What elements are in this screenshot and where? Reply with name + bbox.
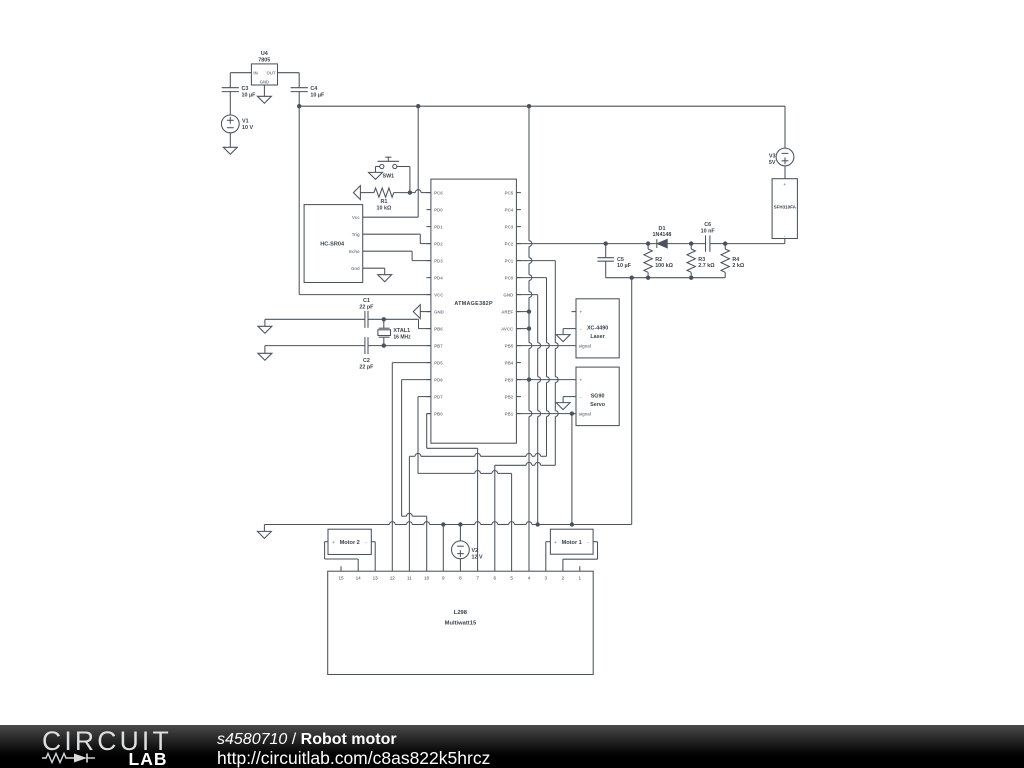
schematic url	[217, 748, 490, 768]
wire PD5 to L298 pin 12	[392, 363, 431, 572]
svg-text:11: 11	[407, 576, 412, 581]
ground under HC-SR04	[378, 275, 392, 282]
svg-text:+: +	[580, 378, 583, 383]
svg-text:PC4: PC4	[505, 207, 514, 212]
svg-text:2 kΩ: 2 kΩ	[732, 263, 744, 269]
wire SW1 right to R1 junction	[397, 167, 410, 193]
svg-text:LAB: LAB	[129, 749, 168, 768]
crystal XTAL1 16 MHz	[378, 319, 411, 345]
wire Motor 1 right to L298 pin 2	[563, 542, 598, 572]
wire network down to ground rail	[631, 278, 633, 525]
svg-text:7: 7	[476, 576, 479, 581]
node PB3 junction on 5V bus	[527, 377, 531, 381]
wire SW1 left to ground	[376, 167, 380, 173]
capacitor C3 10 uF	[222, 86, 256, 98]
svg-text:PD7: PD7	[434, 394, 443, 399]
svg-text:SW1: SW1	[383, 174, 395, 180]
svg-text:PC3: PC3	[505, 224, 514, 229]
diode D1 1N4148	[653, 226, 672, 248]
svg-text:-: -	[784, 234, 786, 239]
wire PB5 to laser signal	[516, 345, 576, 347]
laser module XC-4490	[572, 299, 620, 358]
svg-text:+: +	[783, 182, 786, 187]
svg-text:Echo: Echo	[349, 249, 360, 254]
svg-text:1: 1	[579, 576, 582, 581]
wire PB0 to L298 pin 7	[427, 414, 478, 572]
svg-text:R3: R3	[698, 257, 705, 263]
svg-text:ATMAGE382P: ATMAGE382P	[454, 301, 493, 307]
ground under V1	[223, 147, 237, 154]
node GND vertical at ground rail	[536, 522, 540, 526]
svg-text:PC5: PC5	[505, 190, 514, 195]
wire chip GND right	[516, 294, 537, 296]
svg-text:PC0: PC0	[505, 275, 514, 280]
svg-text:C6: C6	[704, 222, 711, 228]
svg-text:PC2: PC2	[505, 241, 514, 246]
motor M2 Motor 2	[328, 529, 371, 554]
svg-text:AVCC: AVCC	[501, 326, 514, 331]
svg-text:PD0: PD0	[434, 207, 443, 212]
svg-text:PB3: PB3	[505, 377, 514, 382]
svg-text:PB5: PB5	[505, 343, 514, 348]
capacitor C1 22 pF	[359, 298, 374, 328]
svg-text:1N4148: 1N4148	[653, 232, 672, 238]
wire V2 to L298 pin 8	[459, 559, 461, 572]
node R3 top	[689, 241, 693, 245]
servo module SG90	[576, 367, 619, 426]
node AVCC junction	[527, 326, 531, 330]
wire servo minus to ground	[563, 397, 576, 403]
ground left of C1	[258, 326, 272, 333]
wire Motor 2 left to L298 pin 14	[325, 542, 359, 572]
resistor R2 100 kOhm	[644, 244, 674, 278]
node rail to V2	[458, 522, 462, 526]
wire 5V bus vertical	[529, 106, 532, 571]
svg-text:PD3: PD3	[434, 258, 443, 263]
node R2 bottom	[646, 276, 650, 280]
voltage source V3 5V	[769, 148, 794, 166]
svg-text:2.7 kΩ: 2.7 kΩ	[698, 263, 715, 269]
svg-text:+: +	[580, 310, 583, 315]
node network to ground rail	[630, 276, 634, 280]
svg-text:10 µF: 10 µF	[242, 93, 257, 99]
pushbutton SW1	[378, 157, 400, 179]
wire rail down to V3	[784, 106, 786, 148]
wire network bottom	[606, 277, 726, 279]
ground at chip GND pin	[413, 305, 431, 319]
node rail to HC-SR04 branch	[416, 104, 420, 108]
svg-text:10 kΩ: 10 kΩ	[376, 205, 391, 211]
svg-text:16 MHz: 16 MHz	[393, 334, 411, 340]
svg-text:PD4: PD4	[434, 275, 443, 280]
svg-text:GND: GND	[503, 292, 513, 297]
svg-text:PB4: PB4	[505, 360, 514, 365]
svg-text:5V: 5V	[769, 160, 776, 166]
svg-text:10: 10	[424, 576, 430, 581]
svg-text:XTAL1: XTAL1	[393, 328, 410, 334]
voltage regulator U4 7805	[251, 51, 277, 85]
wire HC-SR04 Echo to PD3	[363, 251, 431, 260]
resistor R1 10 kOhm	[360, 188, 431, 211]
svg-text:3: 3	[545, 576, 548, 581]
capacitor C2 22 pF	[359, 337, 374, 370]
svg-text:Motor 1: Motor 1	[562, 540, 582, 546]
wire Motor 2 right to L298 pin 13	[371, 542, 375, 572]
svg-text:VCC: VCC	[434, 292, 444, 297]
svg-text:signal: signal	[579, 411, 591, 416]
node R3 bottom	[689, 276, 693, 280]
svg-text:R2: R2	[655, 257, 662, 263]
svg-text:C2: C2	[363, 358, 370, 364]
wire PB7 to crystal net	[265, 346, 431, 354]
CircuitLab logo	[0, 725, 200, 768]
wire PC2 stub to network	[0, 0, 1, 1]
svg-text:PD1: PD1	[434, 224, 443, 229]
wire rail to L298 pin 9	[442, 525, 444, 572]
wire rail to V2	[459, 525, 461, 542]
svg-text:SG90: SG90	[591, 394, 605, 400]
svg-text:PC6: PC6	[434, 190, 443, 195]
svg-text:XC-4490: XC-4490	[587, 326, 608, 332]
resistor R3 2.7 kOhm	[687, 244, 715, 278]
svg-text:V1: V1	[242, 119, 249, 125]
wire PB1 to servo signal	[516, 413, 576, 415]
wire PC0 vertical	[547, 278, 550, 457]
svg-text:Gnd: Gnd	[351, 266, 360, 271]
svg-text:-: -	[580, 395, 582, 400]
svg-text:PB7: PB7	[434, 343, 443, 348]
wire PC0 to bus	[516, 277, 546, 279]
svg-text:6: 6	[494, 576, 497, 581]
node rail to bus branch	[527, 104, 531, 108]
svg-text:C3: C3	[242, 86, 249, 92]
svg-text:R4: R4	[732, 257, 739, 263]
svg-text:8: 8	[459, 576, 462, 581]
svg-text:Laser: Laser	[590, 334, 605, 340]
svg-text:C4: C4	[310, 86, 317, 92]
node C5 top	[604, 241, 608, 245]
svg-text:OUT: OUT	[267, 71, 276, 76]
svg-text:GND: GND	[434, 309, 444, 314]
svg-text:Motor 2: Motor 2	[340, 540, 360, 546]
svg-text:PB6: PB6	[434, 326, 443, 331]
svg-text:SFH310FA: SFH310FA	[774, 204, 797, 209]
wire U4 GND pin	[263, 85, 265, 96]
svg-text:C1: C1	[363, 298, 370, 304]
svg-text:U4: U4	[261, 51, 268, 57]
wire U4 IN to C3	[230, 73, 251, 88]
svg-text:PB2: PB2	[505, 394, 514, 399]
phototransistor SFH310FA	[772, 179, 797, 239]
svg-text:PB1: PB1	[505, 411, 514, 416]
svg-text:AREF: AREF	[501, 309, 513, 314]
svg-text:+: +	[332, 540, 335, 545]
wire PC0 net to L298 pin 11	[409, 453, 546, 571]
svg-text:10 V: 10 V	[242, 125, 253, 131]
svg-text:10 nF: 10 nF	[701, 229, 716, 235]
schematic title	[217, 731, 397, 749]
wire C4 down to VCC rail junction	[298, 92, 300, 295]
footer bar	[0, 725, 1024, 768]
svg-text:2: 2	[562, 576, 565, 581]
svg-text:-: -	[580, 327, 582, 332]
wire servo signal branch to ground rail	[571, 414, 573, 525]
svg-text:L298: L298	[454, 610, 468, 616]
wire rail left end to ground	[263, 525, 265, 532]
node SW1-R1 junction	[408, 190, 412, 194]
voltage source V1 10 V	[221, 115, 253, 133]
svg-text:100 kΩ: 100 kΩ	[655, 263, 673, 269]
node crystal top	[382, 317, 386, 321]
svg-text:PB0: PB0	[434, 411, 443, 416]
svg-text:13: 13	[373, 576, 379, 581]
ground under SW1	[369, 172, 383, 179]
resistor R4 2 kOhm	[721, 244, 745, 278]
svg-text:12 V: 12 V	[472, 554, 483, 560]
svg-text:9: 9	[442, 576, 445, 581]
svg-text:12: 12	[390, 576, 396, 581]
wire PB6 to crystal net	[265, 319, 431, 328]
svg-text:15: 15	[338, 576, 344, 581]
svg-text:IN: IN	[253, 71, 257, 76]
svg-text:14: 14	[356, 576, 362, 581]
svg-text:PD6: PD6	[434, 377, 443, 382]
wire 5V branch to HC-SR04 Vcc	[363, 106, 419, 217]
wire U4 OUT to C4	[278, 73, 300, 88]
node servo signal junction	[570, 411, 574, 415]
wire V1 to ground	[229, 133, 231, 148]
svg-text:Multiwatt15: Multiwatt15	[445, 620, 477, 626]
svg-text:22 pF: 22 pF	[359, 304, 374, 310]
svg-text:Vcc: Vcc	[352, 215, 360, 220]
ground under U4	[257, 96, 271, 103]
wire PC1 net to L298 pin 6	[495, 462, 556, 571]
svg-text:-: -	[365, 540, 367, 545]
wire Motor 1 left to L298 pin 3	[546, 542, 551, 572]
wire ground rail	[264, 522, 631, 525]
capacitor C5 10 uF	[598, 244, 632, 278]
ground left of C2	[258, 353, 272, 360]
svg-text:4: 4	[528, 576, 531, 581]
svg-text:5: 5	[510, 576, 513, 581]
wire PD6 to L298 pin 10	[402, 380, 431, 572]
svg-text:GND: GND	[260, 80, 270, 85]
svg-text:PD2: PD2	[434, 241, 443, 246]
ground at servo	[556, 403, 570, 410]
node servo branch at ground rail	[570, 522, 574, 526]
node R4 top	[723, 241, 727, 245]
svg-text:C5: C5	[617, 257, 624, 263]
ground at laser	[556, 335, 570, 342]
svg-text:HC-SR04: HC-SR04	[320, 241, 345, 247]
node AREF junction	[527, 309, 531, 313]
wire chip GND vertical to ground rail	[538, 295, 541, 525]
wire PC1 to bus	[516, 260, 555, 262]
svg-text:PC1: PC1	[505, 258, 514, 263]
ground at rail left end	[257, 531, 271, 538]
svg-text:D1: D1	[659, 226, 666, 232]
motor driver U2 L298 Multiwatt15	[328, 566, 594, 674]
svg-text:-: -	[587, 540, 589, 545]
capacitor C4 10 uF	[291, 86, 325, 98]
wire HC-SR04 Gnd	[363, 268, 385, 275]
svg-text:signal: signal	[579, 343, 591, 348]
svg-text:7805: 7805	[258, 57, 270, 63]
node 5V rail junction at C4	[297, 104, 301, 108]
wire PC1 vertical	[555, 261, 558, 466]
node crystal bottom	[382, 343, 386, 347]
motor M1 Motor 1	[550, 529, 593, 554]
wire PB3 to servo plus	[516, 379, 576, 381]
wire SFH310FA to network	[725, 239, 785, 244]
wire AVCC to 5V bus	[516, 328, 529, 330]
svg-text:Trig: Trig	[352, 232, 360, 237]
svg-text:22 pF: 22 pF	[359, 364, 374, 370]
wire V3 to SFH310FA	[784, 166, 786, 179]
wire 5V rail	[299, 105, 785, 107]
svg-text:V2: V2	[472, 548, 479, 554]
svg-text:+: +	[554, 540, 557, 545]
ground left of R1	[353, 186, 360, 200]
wire VCC to chip	[299, 294, 431, 296]
svg-text:V3: V3	[769, 154, 776, 160]
wire laser minus to ground	[563, 329, 576, 335]
svg-text:PD5: PD5	[434, 360, 443, 365]
svg-text:10 µF: 10 µF	[617, 263, 632, 269]
svg-text:R1: R1	[380, 199, 387, 205]
microcontroller U1 ATMAGE382P	[426, 179, 521, 443]
ultrasonic sensor HC-SR04	[304, 205, 363, 283]
svg-text:Servo: Servo	[590, 402, 606, 408]
svg-text:10 µF: 10 µF	[310, 93, 325, 99]
node R2 top	[646, 241, 650, 245]
wire C3 to V1	[229, 92, 231, 115]
wire HC-SR04 Trig to PD2	[363, 234, 431, 243]
wire PD7 to L298 pin 5	[418, 397, 512, 572]
node rail to L298 pin 9	[441, 522, 445, 526]
wire PC2 net	[516, 243, 725, 245]
capacitor C6 10 nF	[701, 222, 716, 252]
voltage source V2 12 V	[452, 541, 483, 561]
wire AREF to 5V bus	[516, 311, 529, 313]
